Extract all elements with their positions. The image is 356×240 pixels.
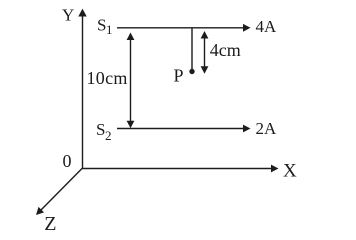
wire segment from S1 down to point P: [191, 29, 193, 70]
X axis: [82, 165, 279, 173]
point P dot: [189, 69, 194, 74]
dimension line 10cm (between S1 and S2): [127, 33, 135, 129]
wire S1 (current 4A): [117, 24, 251, 32]
svg-text:Y: Y: [62, 6, 74, 25]
svg-text:4cm: 4cm: [210, 40, 241, 60]
dimension line 4cm (S1 to P): [201, 31, 209, 74]
svg-text:2A: 2A: [256, 119, 278, 138]
label S2: [96, 120, 112, 143]
svg-text:10cm: 10cm: [87, 68, 128, 88]
Y axis: [78, 9, 86, 169]
svg-text:2: 2: [105, 128, 112, 143]
Z axis: [36, 169, 82, 216]
label S1: [97, 16, 113, 37]
svg-text:1: 1: [106, 22, 113, 37]
wire S2 (current 2A): [117, 125, 251, 133]
svg-text:X: X: [283, 161, 297, 182]
svg-text:0: 0: [63, 151, 72, 171]
svg-text:4A: 4A: [256, 17, 278, 36]
svg-text:P: P: [174, 66, 184, 86]
svg-text:Z: Z: [44, 213, 56, 235]
